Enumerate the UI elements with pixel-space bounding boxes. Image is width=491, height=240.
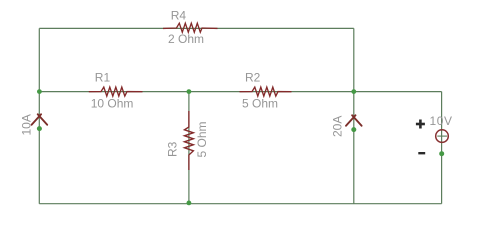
svg-text:2 Ohm: 2 Ohm bbox=[168, 32, 204, 46]
voltage source V1 circle bbox=[436, 130, 449, 143]
wire mid vertical (20A branch) bbox=[353, 28, 355, 203]
junction node C (20A branch / middle rail) bbox=[351, 89, 356, 94]
resistor R3 bbox=[166, 111, 210, 170]
svg-text:10 Ohm: 10 Ohm bbox=[91, 97, 134, 111]
junction node D (R3 bottom) bbox=[187, 201, 192, 206]
resistor R4 bbox=[163, 9, 218, 47]
svg-text:5 Ohm: 5 Ohm bbox=[195, 121, 209, 157]
plus sign bbox=[416, 120, 425, 129]
junction node B (R3 top) bbox=[187, 89, 192, 94]
resistor R2 bbox=[240, 71, 292, 111]
resistor R1 bbox=[89, 71, 143, 111]
wire left vertical bbox=[38, 28, 40, 203]
minus sign bbox=[418, 152, 425, 154]
svg-text:10A: 10A bbox=[20, 114, 34, 135]
wire R3 branch vertical bbox=[188, 92, 190, 204]
svg-text:20A: 20A bbox=[330, 116, 344, 137]
wire middle rail bbox=[39, 91, 441, 93]
current source I2 20A arrow bbox=[346, 115, 362, 126]
junction dot below 20A arrow bbox=[351, 127, 356, 132]
svg-text:5 Ohm: 5 Ohm bbox=[242, 97, 278, 111]
svg-text:R1: R1 bbox=[95, 71, 111, 85]
junction node A (left/middle rail) bbox=[37, 89, 42, 94]
svg-text:R3: R3 bbox=[166, 141, 180, 157]
junction dot below 10V source bbox=[439, 151, 444, 156]
current source I1 10A arrow bbox=[32, 114, 48, 125]
junction dot below 10A arrow bbox=[37, 126, 42, 131]
wire right vertical (10V branch) bbox=[441, 92, 443, 204]
wire bottom rail bbox=[39, 203, 441, 205]
svg-text:10V: 10V bbox=[430, 114, 453, 128]
wire top rail bbox=[39, 27, 354, 29]
svg-text:R2: R2 bbox=[245, 71, 261, 85]
svg-text:R4: R4 bbox=[171, 9, 187, 23]
